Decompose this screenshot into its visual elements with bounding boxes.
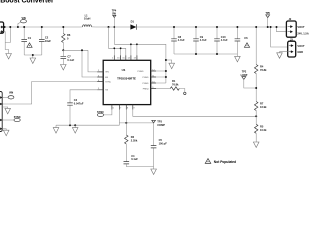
wire SW node to IC SW pins	[109, 27, 126, 60]
capacitor C10 4.7uF	[214, 27, 228, 54]
svg-text:4.7uF: 4.7uF	[178, 38, 185, 42]
node SW drop	[108, 26, 110, 28]
node rail-gnd branch	[9, 26, 11, 28]
svg-text:16.9k: 16.9k	[260, 105, 267, 109]
svg-text:76.8k: 76.8k	[172, 82, 179, 86]
svg-text:76.8k: 76.8k	[260, 68, 267, 72]
svg-text:R5: R5	[260, 124, 264, 128]
svg-text:SYNC: SYNC	[105, 81, 111, 83]
wire VIN node to IC pins 1,2	[63, 50, 97, 77]
svg-text:FREQ: FREQ	[143, 88, 149, 90]
svg-text:C3: C3	[74, 98, 78, 102]
svg-text:0.1uF: 0.1uF	[131, 157, 138, 161]
net flag SYNC (signal)	[2, 116, 21, 122]
resistor R3 2.55k	[125, 110, 138, 162]
ground (left end)	[55, 125, 57, 127]
wire to J3 VOUT pin	[271, 27, 288, 47]
svg-text:C1: C1	[28, 36, 32, 40]
svg-text:PGND: PGND	[142, 77, 149, 79]
connector J4 (signal, cut at left edge)	[0, 92, 2, 132]
wire SW rail segment L1 to D1	[96, 26, 130, 28]
svg-text:GND: GND	[297, 50, 303, 54]
test point TP5 VOUT	[266, 12, 271, 27]
ground (PGND)	[169, 63, 175, 68]
resistor R1 76.8k (FREQ)	[156, 79, 186, 95]
connector J2 VOUT	[286, 18, 308, 37]
svg-text:EN: EN	[105, 77, 108, 79]
capacitor C3 0.047uF (SS)	[67, 90, 97, 125]
wire C1/C2 ground rail	[24, 54, 42, 56]
ground (C1/C2)	[32, 55, 34, 58]
test point TP4 SW	[112, 9, 117, 44]
svg-text:C10: C10	[221, 35, 226, 39]
svg-text:R3: R3	[131, 135, 135, 139]
resistor R6 0	[62, 27, 71, 50]
capacitor C4 0.1uF	[124, 154, 139, 167]
svg-text:2.55k: 2.55k	[131, 139, 138, 143]
wire J2 pin2	[277, 27, 287, 32]
capacitor C8 4.7uF	[171, 27, 185, 54]
wire PGND ground spur	[166, 60, 172, 63]
svg-text:TPS55340RTE: TPS55340RTE	[117, 76, 136, 80]
test point TP3 COMP	[152, 120, 165, 127]
svg-text:C9: C9	[200, 35, 204, 39]
svg-text:4.7uF: 4.7uF	[221, 38, 228, 42]
ground (agnd)	[74, 125, 76, 127]
svg-text:VIN: VIN	[105, 72, 109, 74]
wire output rail D1 to J2	[137, 26, 287, 28]
svg-text:C6: C6	[244, 36, 248, 40]
svg-text:SYNC: SYNC	[97, 111, 104, 114]
resistor R5 10.0k (divider bottom)	[255, 124, 268, 142]
wire analog ground rail	[56, 124, 119, 126]
svg-text:PGND: PGND	[137, 71, 144, 73]
svg-text:C7: C7	[67, 55, 71, 59]
inductor L1 10uH	[81, 13, 96, 27]
wire FB line	[133, 110, 256, 117]
connector J3 VOUT/GND	[288, 38, 305, 57]
svg-text:VIN: VIN	[22, 17, 26, 20]
op-amp U1 TPS55340RTE	[97, 55, 156, 109]
svg-text:100 pF: 100 pF	[159, 142, 168, 146]
svg-text:10.0k: 10.0k	[260, 128, 267, 132]
svg-text:24V, 1.5A: 24V, 1.5A	[297, 31, 308, 35]
svg-text:R7: R7	[260, 102, 264, 106]
capacitor C1 (DNP electrolytic)	[21, 27, 32, 55]
resistor R7 16.9k (divider mid)	[255, 102, 268, 125]
svg-text:COMP: COMP	[157, 123, 165, 127]
pin stubs left	[97, 72, 103, 90]
capacitor C7 0.1uF	[61, 50, 75, 64]
capacitor C2 10uF	[39, 27, 51, 55]
diode D1	[130, 19, 136, 29]
svg-text:VOUT: VOUT	[297, 44, 305, 48]
wire J4 pin to IC SYNC pin	[2, 82, 97, 105]
capacitor C6 (DNP electrolytic)	[235, 27, 250, 54]
svg-text:R4: R4	[260, 64, 264, 68]
capacitor C5 100pF	[151, 123, 167, 167]
svg-text:10uH: 10uH	[84, 17, 90, 21]
wire input rail VIN segment	[3, 26, 81, 28]
test point TP2 LOOP	[241, 70, 257, 88]
legend Not Populated	[205, 159, 236, 164]
svg-text:TP3: TP3	[157, 120, 162, 124]
wire J1 pin2 to ground	[3, 27, 10, 54]
ground (comp)	[151, 169, 157, 175]
net flag VIN (top rail)	[18, 17, 27, 27]
svg-text:4.7uF: 4.7uF	[200, 38, 207, 42]
ground (J3)	[277, 53, 283, 59]
svg-text:VIN: VIN	[9, 91, 13, 94]
net flag SYNC (IC)	[97, 110, 112, 117]
svg-text:Not Populated: Not Populated	[214, 160, 236, 164]
capacitor C9 4.7uF	[193, 27, 207, 54]
svg-text:D1: D1	[131, 19, 135, 23]
compensation COMP line	[119, 122, 153, 124]
ground (J4 mid)	[2, 107, 8, 108]
pin stubs top	[114, 55, 137, 60]
wire AGND pin to ground rail	[118, 110, 120, 126]
svg-text:VOUT: VOUT	[297, 25, 305, 29]
svg-text:R1: R1	[172, 79, 176, 83]
ground (input connector)	[6, 54, 12, 60]
net flag VIN (signal)	[2, 91, 14, 99]
svg-text:R6: R6	[67, 33, 71, 37]
ground (J4 bottom)	[2, 129, 6, 130]
resistor R4 76.8k (divider top)	[255, 27, 268, 102]
svg-text:0.047uF: 0.047uF	[74, 101, 84, 105]
connector J1 (input, cut at left edge)	[0, 22, 4, 33]
svg-text:10uF: 10uF	[45, 39, 51, 43]
ground (divider)	[253, 142, 259, 148]
svg-text:SYNC: SYNC	[14, 116, 21, 119]
svg-text:C8: C8	[178, 35, 182, 39]
wire comp ground rail	[126, 167, 153, 169]
svg-text:Boost Converter: Boost Converter	[0, 0, 54, 5]
wire output caps ground rail	[174, 54, 237, 56]
wire J3 GND pin	[280, 52, 288, 53]
ground (output caps)	[235, 56, 241, 62]
svg-text:U1: U1	[122, 68, 126, 72]
svg-text:C5: C5	[159, 138, 163, 142]
svg-text:0.1uF: 0.1uF	[67, 58, 74, 62]
pin stubs bottom	[112, 105, 133, 110]
svg-text:C2: C2	[45, 35, 49, 39]
ground (C7)	[61, 65, 67, 71]
svg-text:PGND: PGND	[142, 83, 149, 85]
wire TP4 net upper run to right side	[114, 44, 166, 83]
wire IC right PGND pins to vertical	[156, 71, 166, 83]
pin stubs right	[151, 71, 156, 89]
